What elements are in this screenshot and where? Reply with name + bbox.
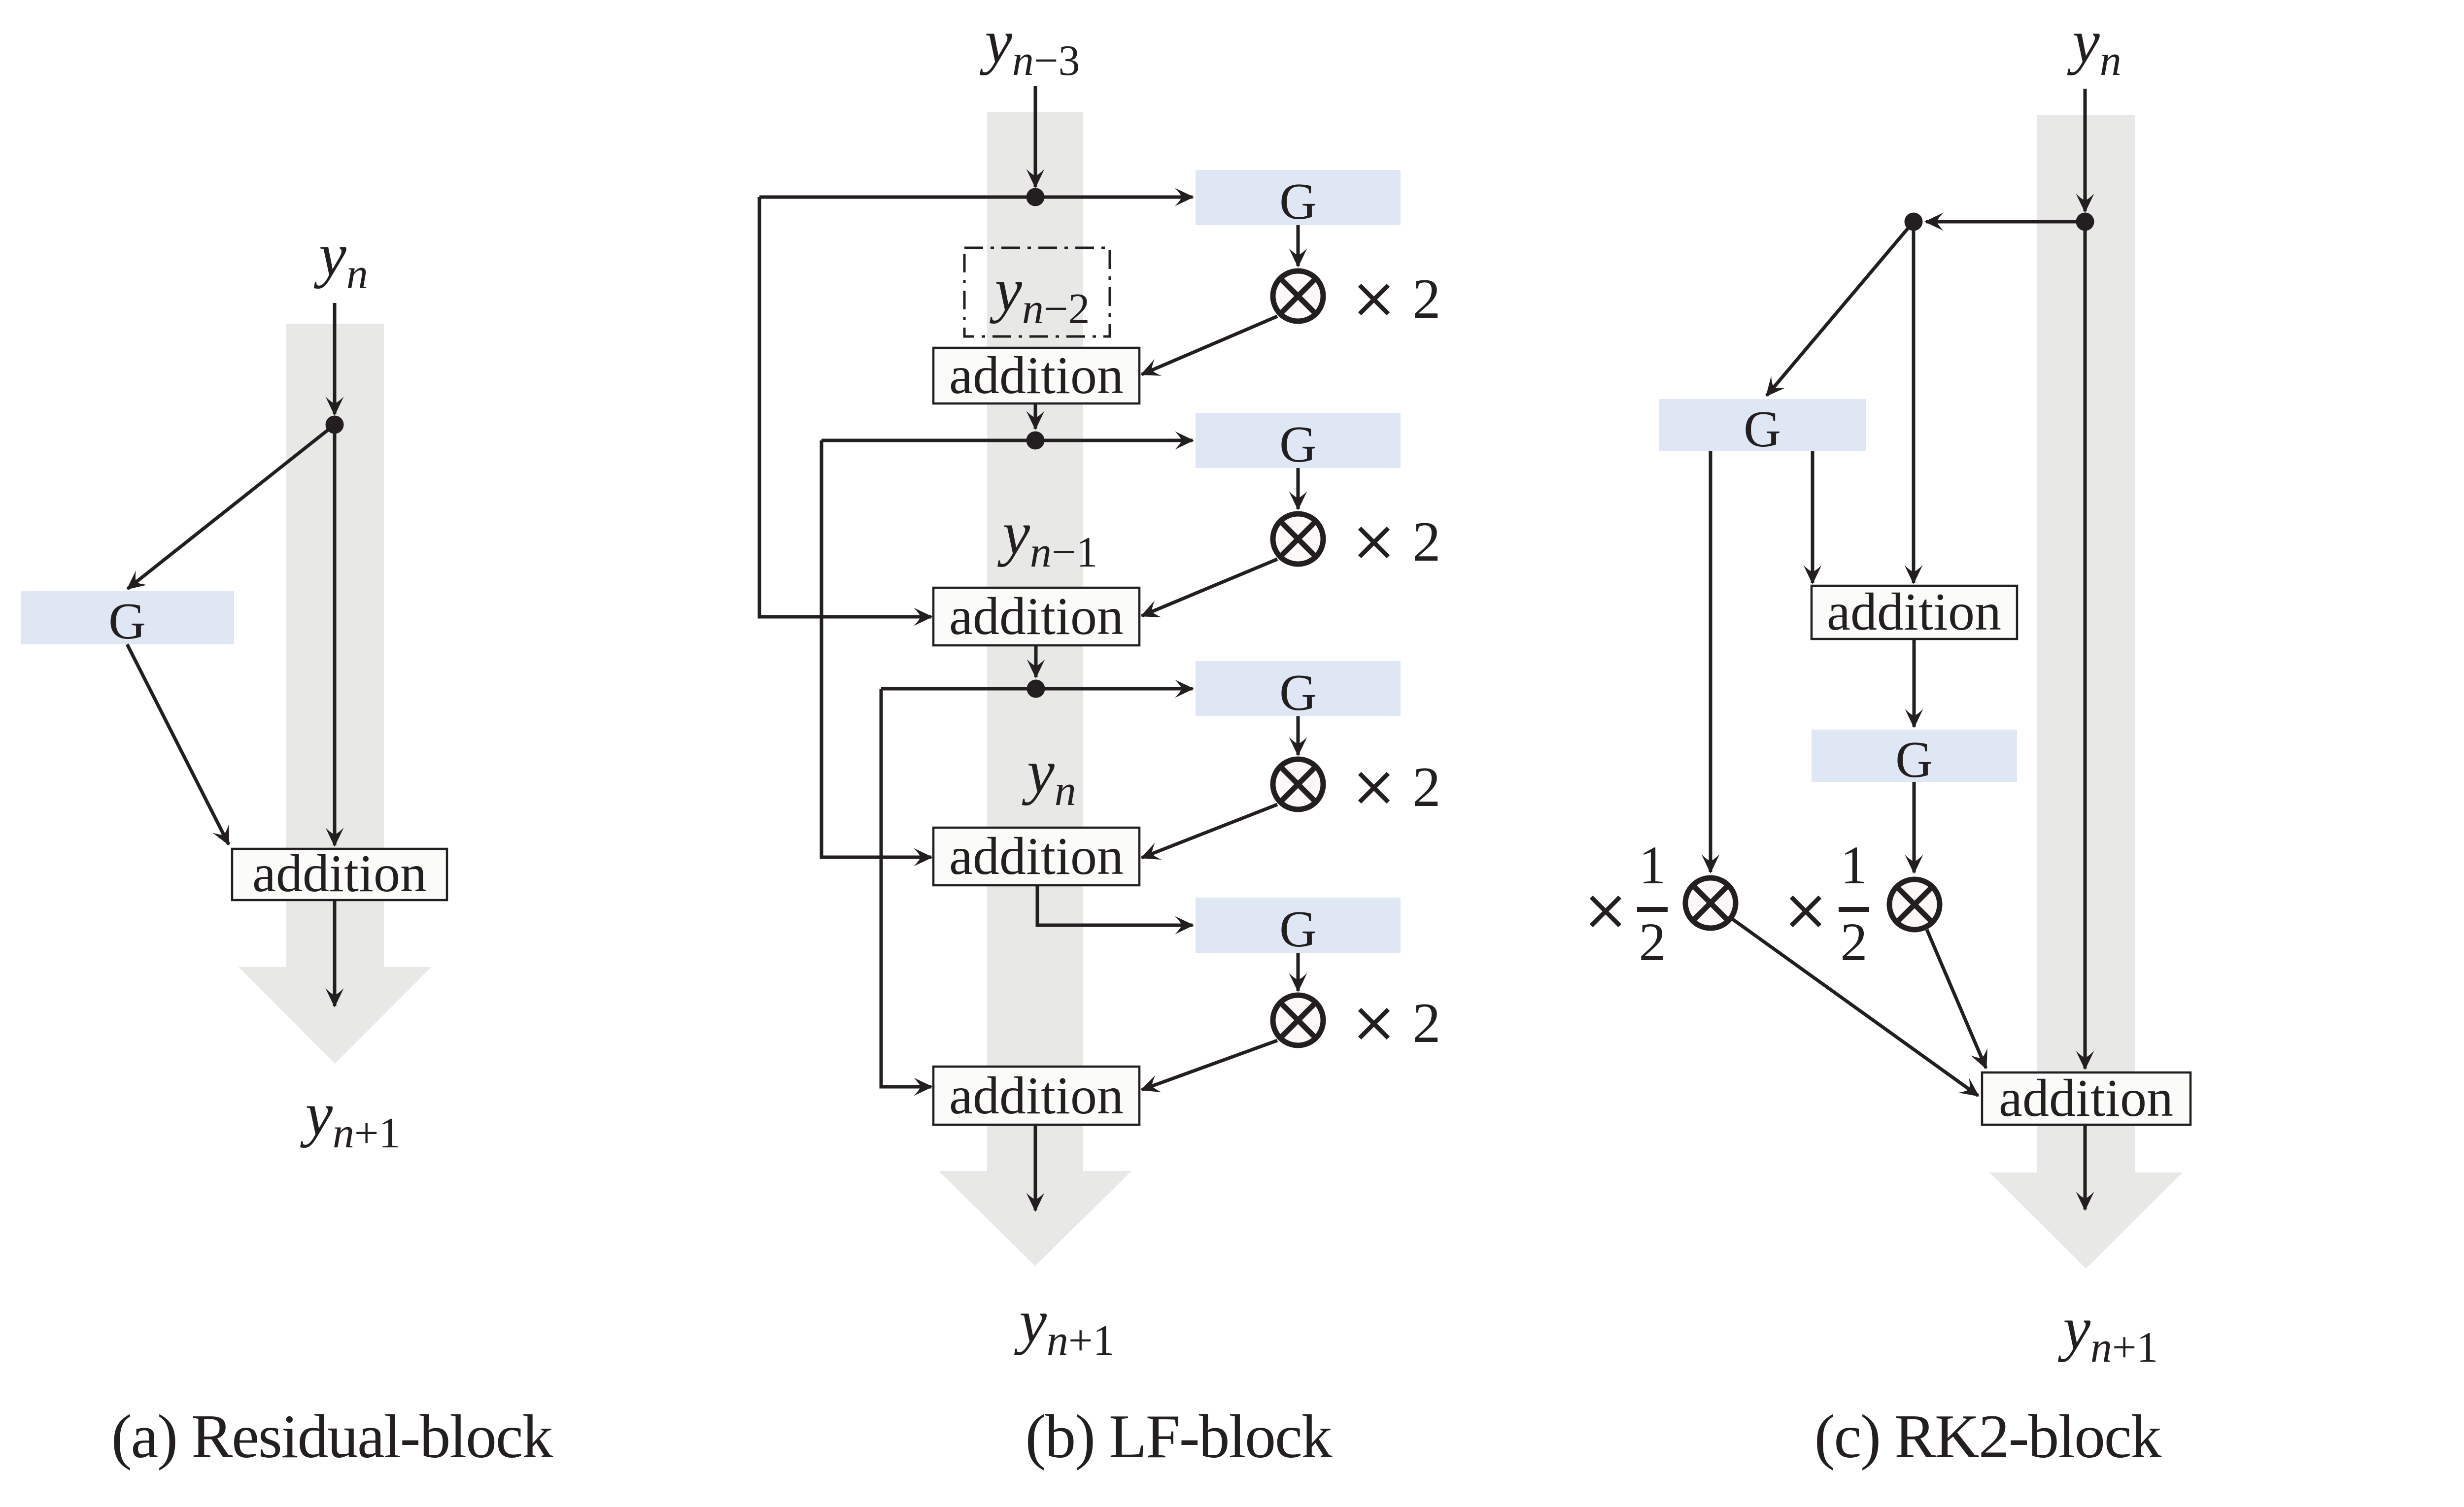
wire times1 to addition1 B [1142, 316, 1277, 374]
svg-text:addition: addition [1999, 1069, 2173, 1128]
block G2 B [1196, 413, 1401, 468]
gray flow band C [2037, 115, 2135, 1172]
wire times-left to final addition C [1733, 919, 1978, 1096]
svg-text:(c) RK2-block: (c) RK2-block [1814, 1403, 2162, 1471]
wire G2 to times-right C [1913, 782, 1916, 872]
svg-text:2: 2 [1412, 756, 1441, 818]
wire junction to addition A [333, 425, 337, 845]
wire rail2 junction2 to addition3 B [821, 440, 931, 857]
svg-text:addition: addition [949, 1067, 1124, 1125]
svg-text:addition: addition [1827, 583, 2001, 641]
label times2 2 B [1360, 528, 1388, 557]
svg-text:1: 1 [1841, 835, 1868, 895]
svg-text:addition: addition [949, 827, 1124, 886]
label times half left C [1591, 835, 1668, 972]
svg-text:1: 1 [1639, 835, 1666, 895]
block addition3 B [933, 828, 1139, 885]
block addition A [232, 849, 447, 900]
svg-text:G: G [1895, 731, 1933, 788]
block G A [21, 591, 234, 644]
gray flow arrowhead A [239, 967, 431, 1064]
wire G4 to times4 B [1297, 953, 1300, 991]
node junction dot 3 B [1027, 680, 1045, 698]
node junction dot 1 B [1027, 188, 1045, 206]
wire G to addition A [127, 644, 229, 844]
wire main line to final addition C [2084, 231, 2087, 1069]
svg-text:G: G [1279, 415, 1317, 473]
svg-text:addition: addition [949, 346, 1124, 405]
wire junction1 to G1 B [759, 196, 1193, 199]
gray flow band B [987, 112, 1083, 1171]
multiplier circle 3 B [1273, 759, 1323, 809]
block G4 B [1196, 898, 1401, 953]
wire left dot to G1 C [1767, 222, 1914, 396]
node junction dot 2 B [1027, 432, 1045, 450]
block addition2 B [933, 588, 1139, 645]
label times2 1 B [1360, 285, 1388, 314]
wire times-right to final addition C [1927, 930, 1986, 1068]
wire junction2 to G2 B [821, 439, 1193, 442]
node junction dot A [326, 416, 344, 434]
block addition4 B [933, 1067, 1139, 1125]
block G2 C [1812, 730, 2017, 782]
wire addition1 to G2 C [1913, 639, 1916, 727]
svg-text:G: G [1279, 900, 1317, 958]
svg-text:2: 2 [1412, 992, 1441, 1054]
block G3 B [1196, 661, 1401, 716]
svg-text:2: 2 [1412, 268, 1441, 330]
multiplier circle 4 B [1273, 995, 1323, 1045]
wire final addition to output C [2084, 1125, 2087, 1209]
svg-text:G: G [1279, 172, 1317, 230]
wire junction3 to G3 B [881, 687, 1193, 691]
wire addition4 to output B [1034, 1125, 1037, 1210]
svg-text:G: G [1279, 664, 1317, 721]
wire left dot to addition1 C [1912, 222, 1916, 583]
svg-text:(b) LF-block: (b) LF-block [1026, 1403, 1333, 1471]
wire right dot to left dot C [1926, 220, 2085, 224]
wire addition3 elbow to G4 B [1037, 885, 1193, 925]
block final addition C [1982, 1072, 2190, 1125]
wire addition to output A [333, 900, 337, 1006]
block addition1 C [1812, 586, 2017, 639]
wire yn-3 to junction 1 B [1034, 86, 1037, 187]
wire times3 to addition3 B [1142, 804, 1277, 858]
node junction left dot C [1905, 213, 1923, 231]
wire yn to junction A [333, 303, 337, 414]
wire G1 left out to times-left C [1709, 451, 1712, 872]
wire times2 to addition2 B [1142, 559, 1277, 616]
svg-text:(a) Residual-block: (a) Residual-block [111, 1403, 553, 1471]
multiplier circle 2 B [1273, 514, 1323, 564]
wire rail3 junction3 to addition4 B [881, 689, 931, 1087]
label times2 3 B [1360, 773, 1388, 802]
block G1 C [1659, 399, 1866, 451]
wire junction to G A [128, 425, 335, 589]
wire G2 to times2 B [1297, 468, 1300, 509]
gray flow band A [286, 324, 384, 967]
wire G1 right out to addition1 C [1811, 451, 1814, 583]
label times half right C [1791, 835, 1869, 972]
wire rail1 junction1 to addition2 B [759, 197, 931, 617]
svg-text:2: 2 [1412, 510, 1441, 573]
multiplier circle right C [1889, 879, 1940, 930]
wire addition2 to junction3 B [1034, 645, 1038, 677]
svg-text:addition: addition [252, 844, 427, 903]
node junction right dot C [2076, 213, 2094, 231]
svg-text:G: G [1744, 400, 1781, 458]
wire G1 to times1 B [1297, 225, 1300, 266]
wire yn to junction C [2084, 89, 2087, 211]
svg-text:2: 2 [1639, 912, 1666, 972]
wire addition1 to junction2 B [1034, 403, 1037, 429]
multiplier circle 1 B [1273, 271, 1323, 321]
wire times4 to addition4 B [1142, 1040, 1277, 1090]
svg-text:2: 2 [1841, 912, 1868, 972]
gray flow arrowhead B [939, 1171, 1131, 1266]
block addition1 B [933, 348, 1139, 403]
svg-text:addition: addition [949, 587, 1124, 646]
dashed state box yn-2 B [964, 248, 1110, 336]
block G1 B [1196, 170, 1401, 225]
wire G3 to times3 B [1297, 716, 1300, 755]
multiplier circle left C [1685, 878, 1736, 928]
gray flow arrowhead C [1989, 1172, 2183, 1269]
svg-text:G: G [108, 592, 146, 650]
label times2 4 B [1360, 1009, 1388, 1038]
